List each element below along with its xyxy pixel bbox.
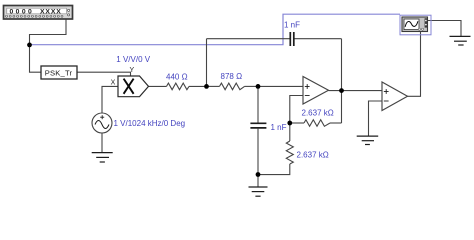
svg-text:1 V/1024 kHz/0 Deg: 1 V/1024 kHz/0 Deg [114, 119, 186, 128]
svg-text:440 Ω: 440 Ω [166, 72, 188, 81]
svg-text:2.637 kΩ: 2.637 kΩ [302, 109, 334, 118]
svg-text:X: X [111, 80, 116, 87]
svg-text:1 nF: 1 nF [284, 20, 300, 29]
svg-text:1 nF: 1 nF [271, 123, 287, 132]
svg-text:Y: Y [129, 67, 134, 74]
svg-text:XXXX: XXXX [40, 8, 62, 15]
svg-text:0000: 0000 [10, 8, 35, 15]
svg-text:1 V/V/0 V: 1 V/V/0 V [116, 55, 150, 64]
svg-text:PSK_Tr: PSK_Tr [45, 68, 73, 77]
svg-text:878 Ω: 878 Ω [221, 72, 243, 81]
svg-text:2.637 kΩ: 2.637 kΩ [297, 151, 329, 160]
